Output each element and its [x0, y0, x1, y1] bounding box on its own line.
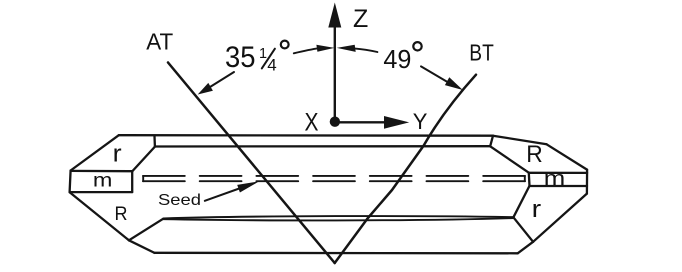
right end top slant 1: [493, 136, 547, 145]
right m face bottom edge: [530, 185, 588, 187]
svg-text:r: r: [532, 196, 542, 223]
right r/front edge: [513, 186, 529, 217]
origin dot: [330, 117, 340, 127]
svg-text:R: R: [526, 141, 543, 168]
bar middle double line upper: [163, 216, 513, 218]
angle arc left: [294, 48, 319, 53]
Z axis arrowhead: [328, 3, 341, 28]
angle arc right: [354, 48, 377, 52]
BT cut line: [335, 75, 476, 263]
leader arrow 49deg head: [445, 77, 463, 90]
degree circle of 49: [413, 42, 421, 50]
svg-text:R: R: [115, 203, 128, 225]
left m face right edge: [131, 171, 133, 192]
seed line left cap: [142, 176, 144, 181]
angle arc right arrowhead: [337, 45, 356, 52]
left bottom bevel edge: [70, 192, 129, 240]
right lower inner edge: [513, 217, 533, 242]
bar bottom outline: [154, 252, 517, 255]
left r/front edge: [132, 147, 154, 171]
fraction slash of 1/4: [262, 49, 275, 69]
svg-text:49: 49: [383, 44, 411, 74]
svg-text:Z: Z: [353, 5, 368, 33]
seed dashed line upper: [143, 175, 525, 177]
right end top slant 2: [547, 144, 587, 169]
Z axis line: [334, 24, 336, 119]
bar middle double line lower: [163, 218, 513, 220]
left m face top edge: [71, 170, 133, 173]
angle arc left arrowhead: [316, 45, 334, 52]
right m face left edge: [528, 173, 531, 186]
svg-text:X: X: [305, 108, 319, 136]
Y axis line: [340, 121, 386, 123]
right lower corner edge: [518, 242, 533, 254]
right short vertical edge: [490, 136, 493, 147]
Y axis arrowhead: [384, 116, 409, 129]
seed dashed line lower: [143, 180, 525, 182]
svg-text:Seed: Seed: [158, 192, 201, 209]
svg-text:BT: BT: [469, 40, 494, 66]
svg-text:Y: Y: [413, 109, 428, 134]
svg-text:35: 35: [225, 41, 256, 74]
svg-text:r: r: [113, 141, 122, 168]
svg-text:m: m: [544, 168, 566, 190]
left R/front edge: [129, 219, 163, 241]
leader arrow 49deg line: [421, 66, 450, 83]
seed leader arrowhead: [237, 181, 259, 192]
leader arrow 35deg head: [198, 83, 213, 95]
right bottom bevel edge: [533, 194, 587, 242]
AT cut line: [168, 63, 335, 264]
left lower corner edge: [129, 240, 155, 253]
right R/front edge: [490, 146, 529, 172]
bar top outline: [119, 134, 493, 137]
svg-text:m: m: [93, 170, 113, 191]
seed leader line: [205, 188, 242, 201]
bar top-front edge: [155, 145, 490, 148]
left short vertical edge: [153, 136, 156, 146]
svg-text:AT: AT: [146, 28, 173, 54]
left end top bevel edge: [71, 135, 119, 170]
left m face bottom edge: [70, 191, 132, 193]
degree circle of 35 1/4: [281, 41, 289, 49]
seed line right cap: [524, 176, 526, 181]
leader arrow 35deg line: [206, 72, 234, 90]
left end left edge: [70, 171, 71, 193]
right tip edge: [586, 170, 588, 194]
svg-text:4: 4: [267, 55, 276, 74]
svg-text:1: 1: [259, 46, 267, 62]
right m face top edge: [529, 172, 587, 174]
